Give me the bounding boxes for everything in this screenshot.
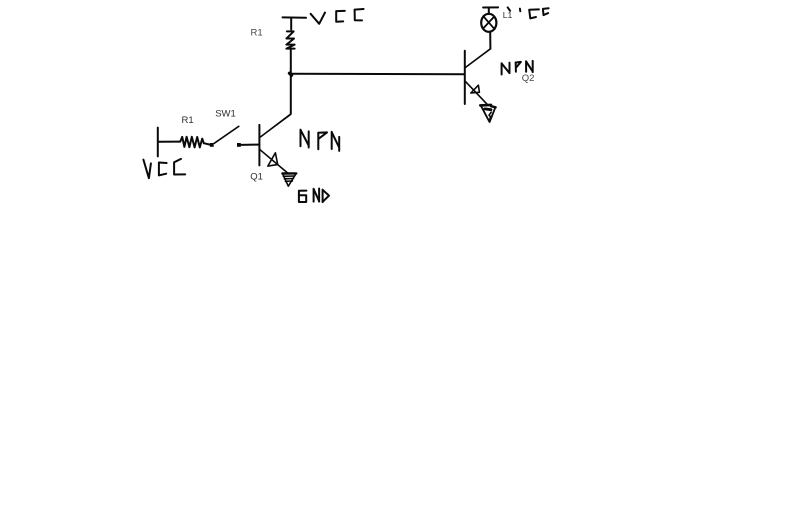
wire (horizontal bus to Q2 base) <box>291 73 465 75</box>
wire (resistor to switch pole) <box>204 143 210 144</box>
svg-text:R1: R1 <box>182 115 194 126</box>
transistor Q2 <box>465 49 491 105</box>
label NPN (Q2, hand-drawn) <box>502 61 533 75</box>
resistor R1 (top, vertical zigzag) <box>286 31 294 48</box>
wire (switch to Q1 base) <box>241 144 259 146</box>
power symbol VCC (lamp) <box>483 7 498 13</box>
svg-text:Q1: Q1 <box>250 171 263 182</box>
svg-text:SW1: SW1 <box>215 109 236 120</box>
transistor Q1 <box>259 114 290 172</box>
lamp L1 <box>481 14 496 32</box>
wire (VCC bar to resistor) <box>159 141 180 143</box>
power symbol VCC (top) <box>283 17 307 29</box>
svg-text:Q2: Q2 <box>522 73 535 84</box>
label VCC (lamp, hand-drawn) <box>508 7 549 18</box>
svg-text:R1: R1 <box>251 28 263 39</box>
wire (diagonal to Q1 collector) <box>260 114 291 138</box>
node junction (bus tap) <box>289 73 291 75</box>
power symbol VCC (left) <box>157 128 159 157</box>
wire (resistor to junction) <box>290 49 292 74</box>
switch SW1 throw contact <box>237 143 241 147</box>
wire (Q2 collector to lamp) <box>489 32 491 49</box>
svg-text:L1: L1 <box>503 10 513 20</box>
label GND (hand-drawn) <box>299 189 329 203</box>
ground (Q1 emitter) <box>282 173 296 186</box>
switch SW1 pole contact <box>210 143 214 147</box>
wire (junction down) <box>290 74 292 114</box>
label VCC (top, hand-drawn) <box>311 9 364 24</box>
ground (Q2 emitter) <box>480 105 495 122</box>
resistor R1 (left, horizontal zigzag) <box>180 137 204 148</box>
label NPN (Q1, hand-drawn) <box>301 130 340 151</box>
switch SW1 lever <box>214 126 239 143</box>
label VCC (left, hand-drawn) <box>143 159 185 178</box>
